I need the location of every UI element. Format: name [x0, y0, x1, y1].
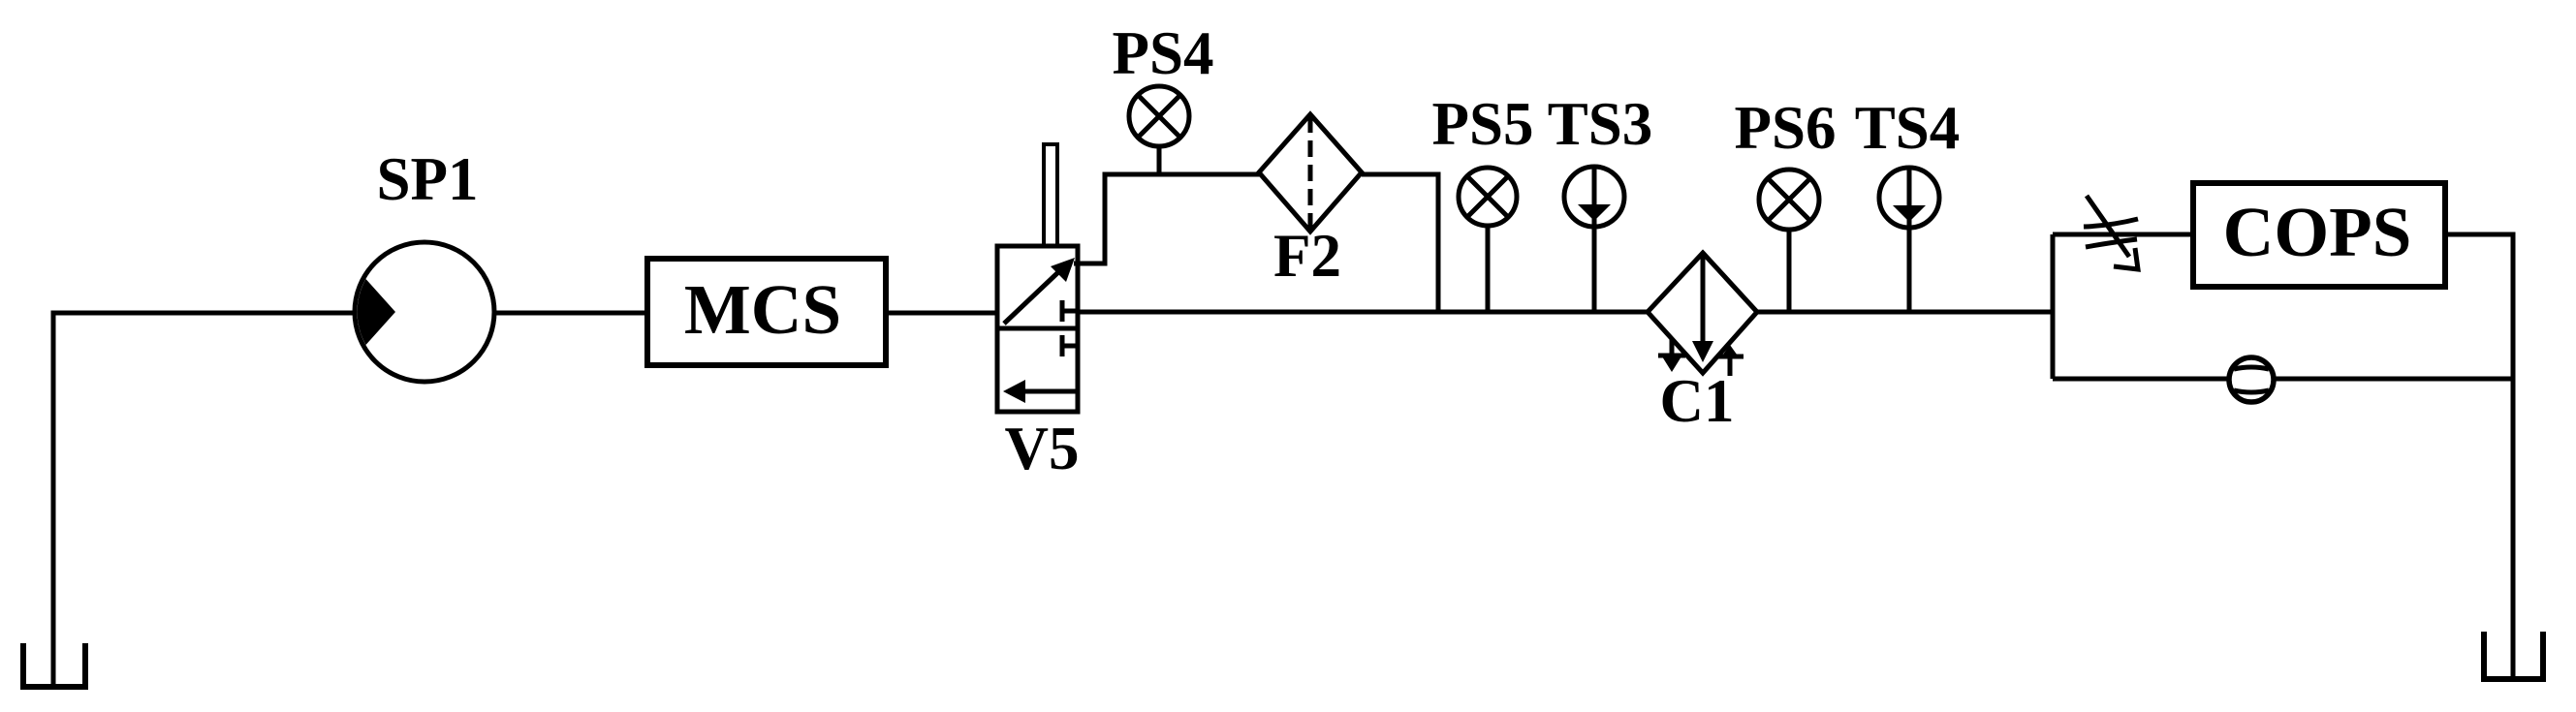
tank T1 (left reservoir) — [23, 643, 85, 687]
wire: suction line from tank T1 up and right to pump SP1 — [53, 313, 355, 686]
cooler C1 coolant in arrow (lower right) — [1728, 356, 1733, 376]
pump SP1 — [355, 242, 494, 382]
wire: bypass lower branch left segment — [2053, 377, 2229, 382]
wire: main line from cooler C1 to right junction — [1757, 310, 2053, 315]
pressure sensor PS6 — [1759, 170, 1819, 312]
wire: MCS to valve V5 — [886, 311, 997, 316]
cooler C1 coolant out arrow (lower left) — [1670, 339, 1675, 356]
svg-text:SP1: SP1 — [376, 145, 478, 213]
flow indicator sight glass — [2229, 357, 2274, 402]
wire: valve V5 outlet up to upper branch line — [1074, 174, 1260, 263]
svg-text:TS4: TS4 — [1855, 94, 1961, 162]
valve V5 blocked port T (bottom square, right) — [1060, 335, 1065, 356]
filter F2 — [1259, 114, 1362, 232]
valve V5 body top square — [997, 246, 1078, 328]
cooler C1 — [1648, 253, 1757, 376]
svg-text:C1: C1 — [1660, 367, 1735, 435]
wire: filter F2 down to main line — [1362, 174, 1438, 312]
pressure sensor PS4 — [1129, 86, 1189, 174]
valve V5 return arrow (bottom square) — [1021, 389, 1076, 394]
svg-text:PS6: PS6 — [1734, 94, 1836, 162]
wire: right junction riser — [2051, 234, 2056, 379]
svg-text:PS5: PS5 — [1431, 90, 1533, 158]
valve V5 body bottom square — [997, 328, 1078, 412]
block COPS — [2193, 183, 2445, 287]
valve V5 actuator pin — [1044, 144, 1057, 246]
svg-text:F2: F2 — [1273, 222, 1341, 290]
wire: COPS outlet to right drop line — [2445, 234, 2513, 678]
wire: pump SP1 to MCS — [494, 311, 647, 316]
svg-text:TS3: TS3 — [1548, 90, 1653, 158]
wire: upper branch to COPS — [2053, 232, 2193, 237]
wire: main line from valve V5 to cooler C1 — [1078, 310, 1648, 315]
pressure sensor PS5 — [1459, 168, 1517, 312]
svg-text:MCS: MCS — [684, 270, 841, 349]
temperature sensor TS4 — [1879, 168, 1939, 312]
svg-text:V5: V5 — [1005, 415, 1080, 482]
svg-text:COPS: COPS — [2223, 193, 2412, 271]
valve V5 blocked port T (top square, right) — [1060, 300, 1065, 322]
valve V5 flow arrow (top square) — [1004, 272, 1058, 324]
block MCS — [647, 259, 886, 365]
temperature sensor TS3 — [1564, 167, 1624, 312]
wire: bypass lower branch right segment — [2274, 377, 2513, 382]
valve V5 — [997, 144, 1080, 412]
tank T2 (right reservoir) — [2484, 632, 2543, 679]
throttle valve (adjustable restrictor) — [2084, 196, 2138, 269]
svg-text:PS4: PS4 — [1112, 19, 1213, 87]
